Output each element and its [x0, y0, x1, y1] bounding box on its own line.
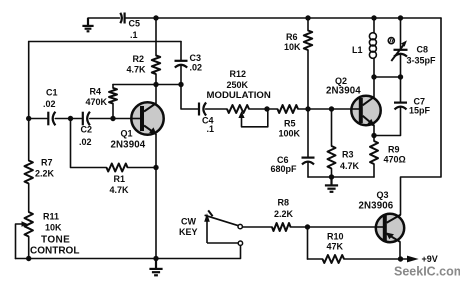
svg-text:2.2K: 2.2K [35, 169, 55, 179]
wire C4 to R12 [206, 108, 227, 110]
wire collector node horizontal [113, 84, 181, 86]
svg-text:2N3906: 2N3906 [359, 201, 394, 212]
wire R6 leads [307, 18, 309, 31]
svg-text:10K: 10K [284, 42, 301, 52]
ground middle (R3/C6) [325, 177, 338, 192]
svg-text:TONE: TONE [41, 234, 70, 245]
wire R2 bottom lead / Q1 collector [155, 74, 157, 103]
svg-text:MODULATION: MODULATION [207, 90, 271, 101]
svg-text:3-35pF: 3-35pF [407, 56, 437, 66]
resistor R6 [304, 31, 312, 51]
svg-text:680pF: 680pF [271, 164, 298, 174]
resistor R4 [109, 88, 117, 104]
wire Q3 emitter to +9V rail [399, 242, 401, 259]
wire feedback line top [29, 41, 181, 43]
wire C1-C2 node down to R1 [71, 119, 107, 168]
svg-text:C5: C5 [129, 19, 141, 29]
CW key arrow [207, 242, 238, 244]
ground top left [82, 18, 93, 31]
svg-text:R9: R9 [388, 145, 400, 155]
transistor Q3 [375, 214, 404, 242]
+9V supply arrow [407, 256, 419, 263]
svg-text:R8: R8 [278, 198, 290, 208]
wire bottom ground rail [16, 246, 241, 259]
wire Q2 emitter stub [373, 125, 375, 135]
resistor R2 [152, 56, 160, 75]
wire C3 bottom lead [180, 66, 182, 85]
resistor R4 leads [112, 85, 114, 89]
svg-text:SeekIC.com: SeekIC.com [394, 265, 460, 279]
wire R10 branch [307, 227, 309, 259]
wire C3 node down to C4 [181, 85, 198, 110]
svg-text:4.7K: 4.7K [110, 185, 130, 195]
wire CW key to R8 [242, 226, 272, 228]
svg-text:.02: .02 [43, 99, 56, 109]
resistor R9 leads [373, 136, 375, 142]
svg-text:.1: .1 [130, 30, 138, 40]
svg-text:.1: .1 [207, 124, 215, 134]
capacitor C5 [120, 13, 122, 23]
wire C6 branch [307, 109, 309, 157]
wire R8 to Q3 base [291, 226, 308, 228]
svg-text:4.7K: 4.7K [127, 65, 147, 75]
svg-text:10K: 10K [45, 223, 62, 233]
transistor Q2 [351, 96, 381, 127]
resistor R3 leads [331, 109, 333, 146]
wire R2 top lead [155, 18, 157, 56]
wire Q1 base line [29, 118, 47, 120]
wire top rail [88, 17, 120, 19]
capacitor C3 [175, 60, 188, 62]
variable capacitor C8 arrow [391, 45, 403, 61]
svg-text:2.2K: 2.2K [274, 209, 294, 219]
svg-text:R6: R6 [286, 32, 298, 42]
wire R11 wiper [16, 224, 22, 259]
svg-text:Q1: Q1 [121, 129, 133, 139]
svg-text:4.7K: 4.7K [340, 161, 360, 171]
resistor R7 [25, 161, 33, 184]
svg-text:2N3904: 2N3904 [326, 86, 361, 97]
resistor R3 [328, 146, 336, 169]
svg-text:250K: 250K [227, 80, 249, 90]
svg-text:2N3904: 2N3904 [111, 140, 146, 151]
wire left rail [28, 42, 30, 161]
capacitor C7 leads [400, 77, 402, 102]
inductor L1 [369, 33, 376, 59]
capacitor C8 leads [400, 18, 402, 48]
wire tank bottom [374, 76, 401, 78]
svg-text:47K: 47K [327, 242, 344, 252]
capacitor C6 [302, 157, 315, 159]
svg-text:L1: L1 [352, 45, 363, 55]
svg-text:R3: R3 [342, 150, 354, 160]
wire Q1 emitter down to ground rail [155, 134, 157, 259]
svg-text:KEY: KEY [179, 227, 198, 237]
svg-text:+9V: +9V [422, 254, 438, 264]
CW key lower contact [238, 241, 242, 245]
capacitor C1 [47, 112, 49, 126]
R11 wiper arrow [22, 221, 28, 226]
svg-text:R10: R10 [327, 232, 344, 242]
svg-text:R5: R5 [284, 119, 296, 129]
svg-text:.02: .02 [190, 63, 203, 73]
resistor R9 [370, 141, 378, 164]
resistor R8 [272, 223, 291, 231]
svg-text:C2: C2 [81, 125, 93, 135]
capacitor C2 [82, 112, 84, 126]
R12 wiper arrow [238, 111, 244, 118]
svg-text:R12: R12 [230, 69, 247, 79]
svg-text:Q3: Q3 [377, 190, 389, 200]
svg-text:R7: R7 [41, 158, 53, 168]
svg-text:.02: .02 [79, 137, 92, 147]
potentiometer R12 [227, 105, 249, 113]
svg-text:R11: R11 [43, 212, 59, 222]
resistor R1 [107, 164, 128, 172]
capacitor C7 [394, 101, 407, 103]
CW key switch lever [205, 215, 238, 225]
svg-text:470K: 470K [86, 97, 108, 107]
inductor L1 leads [373, 18, 375, 33]
variable capacitor C8 [394, 49, 408, 51]
svg-text:100K: 100K [279, 129, 301, 139]
svg-text:CONTROL: CONTROL [30, 245, 79, 256]
wire R12 wiper loop [242, 109, 268, 127]
resistor R5 [278, 105, 299, 113]
wire ground line C6-R3-R9 [308, 176, 374, 178]
wire R1 right lead to emitter line [128, 167, 157, 169]
svg-text:R4: R4 [90, 87, 102, 97]
svg-text:470Ω: 470Ω [384, 155, 406, 165]
svg-text:C8: C8 [417, 45, 429, 55]
transistor Q1 [131, 102, 164, 135]
wire R12 to R5 to Q2 base [249, 108, 278, 110]
trimmer screw symbol [388, 38, 394, 44]
CW key upper contact [238, 224, 242, 228]
capacitor C4 [198, 103, 200, 116]
svg-text:R2: R2 [133, 54, 145, 64]
svg-text:C3: C3 [190, 53, 202, 63]
svg-text:Q2: Q2 [335, 76, 347, 86]
svg-text:CW: CW [181, 217, 196, 227]
svg-text:15pF: 15pF [409, 106, 431, 116]
wire right supply rail to Q3 collector [401, 18, 442, 215]
potentiometer R11 [25, 212, 33, 237]
ground bottom (emitter rail) [149, 259, 162, 276]
svg-text:R1: R1 [114, 174, 126, 184]
resistor R10 [323, 255, 345, 263]
svg-text:C1: C1 [46, 88, 58, 98]
